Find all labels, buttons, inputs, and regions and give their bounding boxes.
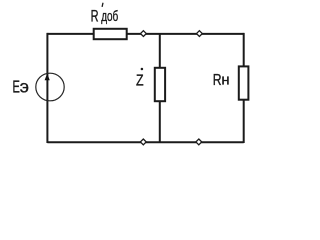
label R'доб [91, 6, 99, 25]
label Ż [136, 72, 144, 90]
svg-text:R: R [91, 6, 99, 25]
label Rн [213, 70, 222, 88]
wire top [47, 33, 243, 35]
node diamond top-right [197, 31, 203, 37]
source arrow [45, 73, 50, 80]
source Eэ circle [36, 73, 64, 101]
svg-text:доб: доб [101, 8, 118, 24]
node diamond bottom-left [140, 139, 146, 145]
wire right [243, 33, 245, 143]
impedance Z [155, 68, 165, 101]
svg-text:н: н [221, 71, 229, 88]
node diamond bottom-right [196, 139, 202, 145]
node diamond top-left [141, 31, 147, 37]
prime of R'доб [101, 3, 104, 7]
resistor Rн [239, 66, 249, 99]
wire bottom [47, 141, 243, 143]
svg-text:э: э [20, 77, 29, 97]
wire left [46, 33, 48, 143]
label Eэ [13, 78, 21, 97]
svg-text:Z: Z [136, 72, 144, 90]
wire middle branch [159, 34, 161, 143]
svg-text:R: R [213, 70, 222, 88]
resistor R'доб [94, 29, 127, 39]
